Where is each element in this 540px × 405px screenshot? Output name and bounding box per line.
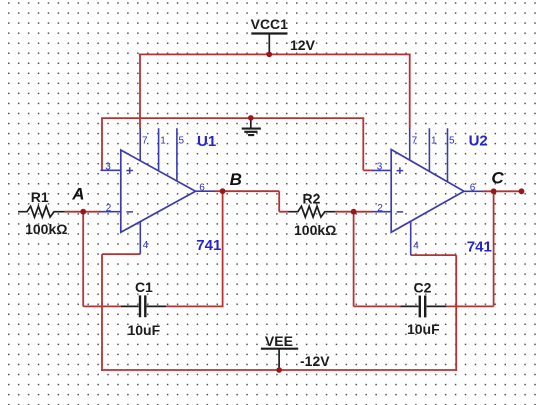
wire C1 right to node B drop bbox=[166, 305, 223, 307]
wire VCC rail to U2 pin 7 bbox=[409, 54, 411, 128]
wire VCC rail horizontal bbox=[139, 53, 411, 55]
power VEE symbol bbox=[261, 349, 298, 370]
svg-text:7: 7 bbox=[142, 135, 148, 146]
svg-text:1: 1 bbox=[431, 135, 437, 146]
svg-text:12V: 12V bbox=[290, 37, 316, 53]
svg-text:C2: C2 bbox=[414, 279, 432, 295]
svg-text:B: B bbox=[230, 170, 242, 189]
wire node C down riser bbox=[493, 191, 495, 306]
op-amp U1 bbox=[121, 150, 196, 232]
wire node A down to C1 bbox=[82, 212, 84, 307]
junction node C bbox=[491, 188, 497, 194]
wire VCC rail to U1 pin 7 bbox=[139, 54, 141, 128]
wire U1 pin 4 to VEE left drop bbox=[102, 254, 140, 371]
svg-text:100kΩ: 100kΩ bbox=[294, 222, 336, 238]
svg-text:VCC1: VCC1 bbox=[251, 16, 289, 32]
svg-text:100kΩ: 100kΩ bbox=[25, 221, 67, 237]
resistor R2 bbox=[289, 206, 336, 217]
ground bbox=[242, 118, 261, 135]
wire U1 output to node B bbox=[214, 190, 223, 192]
svg-text:VEE: VEE bbox=[265, 333, 293, 349]
wire ground rail drop to U2 pin 3 bbox=[363, 118, 372, 170]
wire C2 right to node C riser bbox=[446, 305, 493, 307]
wire node B down to C1 bbox=[222, 191, 224, 306]
wire node A to U1 pin 2 bbox=[83, 211, 100, 213]
svg-text:C1: C1 bbox=[135, 279, 153, 295]
svg-text:6: 6 bbox=[470, 182, 476, 193]
junction node B bbox=[220, 188, 226, 194]
capacitor C1 bbox=[121, 295, 166, 317]
capacitor C2 bbox=[401, 296, 447, 318]
op-amp U1 pin 6 stub bbox=[196, 190, 215, 192]
op-amp U2 pin 5 line bbox=[447, 128, 449, 182]
svg-text:5: 5 bbox=[179, 135, 185, 146]
svg-text:R1: R1 bbox=[31, 189, 49, 205]
resistor R1 bbox=[18, 206, 65, 217]
svg-text:U1: U1 bbox=[197, 133, 216, 150]
svg-text:741: 741 bbox=[196, 237, 221, 254]
junction VCC stem bbox=[267, 52, 273, 58]
terminal dot output C bbox=[519, 188, 525, 194]
op-amp U2 pin 6 stub bbox=[464, 190, 483, 192]
svg-text:2: 2 bbox=[377, 203, 383, 214]
svg-text:3: 3 bbox=[105, 162, 111, 173]
power VCC1 symbol bbox=[251, 34, 287, 55]
op-amp U2 pin 7 line bbox=[409, 128, 411, 160]
svg-text:A: A bbox=[71, 184, 84, 203]
wire ground rail drop to U1 pin 3 bbox=[101, 118, 103, 170]
svg-text:4: 4 bbox=[413, 240, 419, 251]
svg-text:6: 6 bbox=[199, 182, 205, 193]
op-amp U1 pin 5 line bbox=[176, 128, 178, 181]
svg-text:3: 3 bbox=[377, 162, 383, 173]
op-amp U2 pin 2 stub bbox=[372, 211, 391, 213]
wire node B to R2 bbox=[223, 191, 289, 212]
wire ground rail horizontal bbox=[101, 117, 364, 119]
wire VEE rail up to U2 pin 4 bbox=[411, 255, 457, 371]
op-amp U2 bbox=[391, 150, 464, 233]
svg-text:10uF: 10uF bbox=[407, 321, 440, 337]
svg-text:2: 2 bbox=[106, 203, 112, 214]
op-amp U1 pin 2 stub bbox=[100, 211, 121, 213]
wire R2 to U2 pin 2 bbox=[335, 211, 373, 213]
op-amp U1 pin 3 stub bbox=[101, 169, 121, 171]
wire U2 output to node C terminal bbox=[483, 190, 522, 192]
svg-text:1: 1 bbox=[160, 135, 166, 146]
wire R1 to node A bbox=[65, 211, 83, 213]
junction R2 to U2 input bbox=[351, 209, 357, 215]
svg-text:4: 4 bbox=[143, 240, 149, 251]
wire C1 left lead red bbox=[83, 305, 121, 307]
op-amp U2 pin 1 line bbox=[428, 128, 430, 171]
svg-text:C: C bbox=[491, 168, 504, 187]
op-amp U1 pin 4 line bbox=[139, 221, 141, 254]
junction VEE stem bbox=[276, 367, 282, 373]
junction node A bbox=[80, 209, 86, 215]
wire R2 junction down to C2 bbox=[353, 212, 355, 307]
op-amp U1 pin 7 line bbox=[139, 128, 141, 161]
op-amp U1 pin 1 line bbox=[158, 128, 160, 171]
op-amp U2 pin 3 stub bbox=[372, 169, 391, 171]
svg-text:5: 5 bbox=[449, 135, 455, 146]
svg-text:U2: U2 bbox=[469, 133, 488, 150]
junction ground stem bbox=[248, 115, 254, 121]
wire C2 left lead red bbox=[354, 305, 401, 307]
wire VEE rail horizontal bbox=[101, 369, 457, 371]
svg-text:R2: R2 bbox=[303, 191, 321, 207]
svg-text:-12V: -12V bbox=[300, 353, 330, 369]
op-amp U2 pin 4 line bbox=[410, 221, 412, 255]
svg-text:7: 7 bbox=[412, 135, 418, 146]
svg-text:741: 741 bbox=[467, 239, 492, 256]
svg-text:10uF: 10uF bbox=[127, 322, 160, 338]
